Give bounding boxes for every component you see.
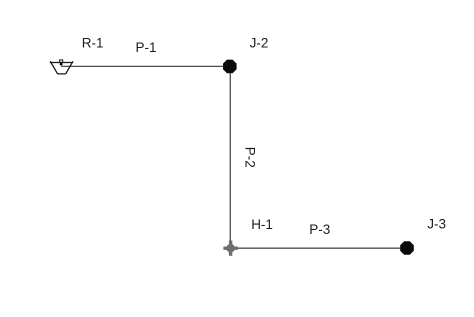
junction J-3 node (black octagon) [400,241,414,255]
reservoir R-1 symbol [50,60,73,74]
wire pipe P-3 (hydrant H-1 to junction J-3) [231,247,407,249]
svg-text:J-2: J-2 [250,36,269,51]
svg-text:P-1: P-1 [136,40,157,55]
junction J-2 node (black octagon) [223,60,237,74]
wire pipe P-1 (reservoir R-1 to junction J-2) [61,65,230,67]
svg-text:R-1: R-1 [82,35,104,50]
svg-text:P-2: P-2 [242,147,257,168]
wire pipe P-2 (junction J-2 to hydrant H-1) [229,66,231,248]
svg-text:J-3: J-3 [427,216,446,231]
svg-text:P-3: P-3 [309,222,330,237]
svg-text:H-1: H-1 [251,217,273,232]
hydrant H-1 node (gray diamond with nubs) [223,241,237,256]
